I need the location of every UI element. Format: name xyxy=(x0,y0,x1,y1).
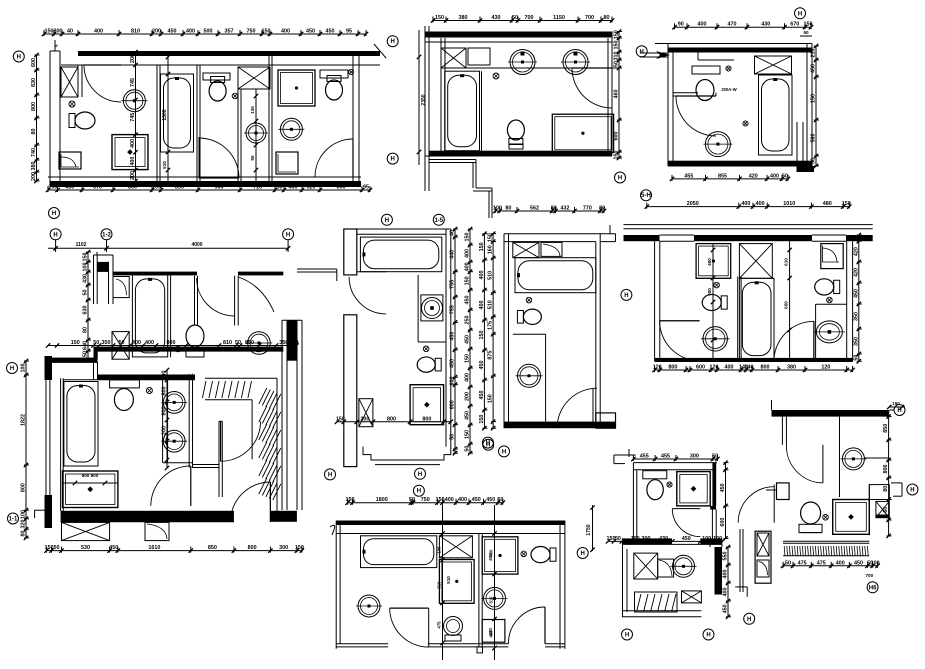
svg-text:1-5: 1-5 xyxy=(434,218,443,224)
wall right plan C xyxy=(806,44,808,167)
toilet H xyxy=(550,548,556,561)
svg-text:310: 310 xyxy=(614,52,620,61)
svg-text:850: 850 xyxy=(208,545,217,551)
wall top D xyxy=(113,272,197,276)
wall right G xyxy=(846,241,848,361)
svg-text:400: 400 xyxy=(145,340,154,346)
svg-text:430: 430 xyxy=(761,22,770,28)
svg-text:2350: 2350 xyxy=(421,94,427,105)
svg-text:450: 450 xyxy=(168,29,177,35)
svg-text:480: 480 xyxy=(823,201,832,207)
svg-text:H: H xyxy=(502,449,506,455)
door arc IJ xyxy=(738,487,774,523)
svg-text:510: 510 xyxy=(446,576,451,584)
dim tub room3 xyxy=(167,52,169,181)
svg-text:50: 50 xyxy=(785,560,791,566)
wall top F xyxy=(504,233,616,235)
bathtub E xyxy=(360,237,441,272)
svg-text:M: M xyxy=(54,44,57,48)
wall right H xyxy=(559,521,561,649)
svg-text:150: 150 xyxy=(83,253,89,262)
shower I xyxy=(677,472,710,506)
partition D upper2 xyxy=(234,276,236,326)
bathtub F xyxy=(515,258,596,293)
svg-text:150: 150 xyxy=(346,497,355,503)
sink D lower2 xyxy=(163,430,185,452)
door J xyxy=(786,445,823,483)
partition C mid xyxy=(673,92,698,94)
svg-text:100: 100 xyxy=(702,536,711,542)
svg-text:300: 300 xyxy=(690,454,699,460)
toilet D upper xyxy=(186,325,204,347)
svg-text:1800: 1800 xyxy=(376,497,388,503)
sink J xyxy=(842,448,864,470)
svg-text:450: 450 xyxy=(486,497,495,503)
svg-text:800: 800 xyxy=(668,365,677,371)
svg-text:150: 150 xyxy=(262,29,271,35)
toilet room6 xyxy=(320,70,348,78)
svg-text:510: 510 xyxy=(489,596,494,604)
wall bottom J xyxy=(783,540,869,542)
svg-text:450: 450 xyxy=(109,545,118,551)
svg-text:745: 745 xyxy=(130,78,136,87)
svg-text:400: 400 xyxy=(94,29,103,35)
dim left plan A xyxy=(36,55,38,181)
svg-text:50: 50 xyxy=(409,497,415,503)
svg-text:670: 670 xyxy=(93,185,102,191)
cabinet G xyxy=(696,244,731,279)
svg-text:650: 650 xyxy=(784,301,789,309)
svg-text:5-H: 5-H xyxy=(641,193,651,199)
arrow left plan C xyxy=(656,51,670,59)
svg-text:95: 95 xyxy=(250,155,255,161)
X box E xyxy=(359,399,373,427)
shower tray room6 xyxy=(276,152,298,174)
svg-text:50: 50 xyxy=(811,158,817,164)
svg-text:100: 100 xyxy=(871,560,880,566)
dim 2350 plan B xyxy=(418,30,420,165)
shower tray G right xyxy=(821,244,843,269)
dim top plan A xyxy=(44,33,366,35)
dim right J xyxy=(888,417,890,536)
svg-text:400: 400 xyxy=(723,570,729,579)
shelf F xyxy=(541,242,562,256)
axis bubble I1 xyxy=(622,629,633,640)
svg-text:150: 150 xyxy=(336,416,345,422)
partition C toilet xyxy=(697,53,699,61)
shower sq H xyxy=(482,620,505,643)
svg-text:400: 400 xyxy=(723,588,729,597)
dim vert vanity D xyxy=(166,370,168,468)
wall hook J right xyxy=(891,482,902,484)
svg-text:50: 50 xyxy=(782,173,788,179)
wall right I xyxy=(712,463,716,506)
svg-text:200: 200 xyxy=(465,392,471,401)
svg-text:475: 475 xyxy=(798,560,807,566)
svg-text:450: 450 xyxy=(465,411,471,420)
dim vert room2 xyxy=(135,52,137,181)
svg-text:50: 50 xyxy=(615,536,621,542)
svg-text:450: 450 xyxy=(811,64,817,73)
drain H xyxy=(521,551,527,557)
axis bubble J1 xyxy=(907,484,918,495)
svg-text:440: 440 xyxy=(450,250,456,259)
floor drain room4 xyxy=(232,93,238,99)
svg-text:135: 135 xyxy=(250,106,255,114)
wall left E xyxy=(344,229,357,275)
svg-text:150: 150 xyxy=(436,497,445,503)
hatch J bottom xyxy=(783,555,869,557)
axis bubble A right1 xyxy=(387,36,398,47)
svg-text:H: H xyxy=(640,49,644,55)
dim 1750 H xyxy=(592,505,594,551)
svg-text:1-2: 1-2 xyxy=(102,232,111,238)
svg-text:400: 400 xyxy=(445,497,454,503)
sink plan C xyxy=(705,132,730,157)
svg-text:H: H xyxy=(328,472,332,478)
dim horiz E xyxy=(337,421,451,423)
svg-text:700: 700 xyxy=(525,15,534,21)
svg-text:H6: H6 xyxy=(869,585,877,591)
svg-text:710: 710 xyxy=(253,185,262,191)
wall right plan A xyxy=(352,56,354,181)
door D lower2 xyxy=(151,466,191,506)
svg-text:200: 200 xyxy=(31,172,37,181)
door D lower3 xyxy=(230,482,270,522)
svg-text:150: 150 xyxy=(45,545,54,551)
door H1 xyxy=(390,608,429,647)
axis bubble D2 xyxy=(50,229,61,240)
svg-text:H: H xyxy=(706,633,710,639)
door F xyxy=(557,388,597,428)
vanity wall D xyxy=(162,378,164,463)
toilet J xyxy=(801,502,821,524)
axis bubble E3 xyxy=(415,468,426,479)
dim mid I xyxy=(608,540,722,542)
svg-text:740: 740 xyxy=(31,148,37,157)
svg-text:755: 755 xyxy=(450,305,456,314)
svg-text:475: 475 xyxy=(817,560,826,566)
X box J xyxy=(876,501,889,517)
svg-text:H: H xyxy=(486,441,490,447)
svg-text:50: 50 xyxy=(512,15,518,21)
svg-text:50: 50 xyxy=(83,290,89,296)
axis bubble J top xyxy=(894,405,905,416)
svg-text:430: 430 xyxy=(489,630,494,638)
svg-text:2050: 2050 xyxy=(687,201,699,207)
dim bottom plan A xyxy=(48,189,370,191)
wall right ext plan C xyxy=(796,122,798,172)
svg-text:100: 100 xyxy=(21,364,27,373)
svg-text:450: 450 xyxy=(450,332,456,341)
svg-text:80: 80 xyxy=(599,206,605,212)
counter E xyxy=(417,275,419,342)
svg-text:600: 600 xyxy=(696,365,705,371)
closet X plan B xyxy=(441,48,466,68)
door stub D upper xyxy=(197,276,199,326)
dim bottom D xyxy=(47,550,302,552)
axis bubble I2 xyxy=(703,629,714,640)
dim right E2 xyxy=(469,229,471,453)
svg-text:H: H xyxy=(53,232,57,238)
svg-text:380: 380 xyxy=(459,15,468,21)
dim shower D xyxy=(63,482,118,484)
basin E xyxy=(421,295,443,321)
closet lines D xyxy=(205,377,277,379)
axis bubble F2 xyxy=(482,437,493,448)
svg-text:600: 600 xyxy=(450,400,456,409)
svg-text:600: 600 xyxy=(450,376,456,385)
wall top G upper xyxy=(624,224,873,226)
toilet G xyxy=(721,296,727,309)
svg-text:455: 455 xyxy=(640,454,649,460)
svg-text:H: H xyxy=(897,408,901,414)
dim right I xyxy=(725,463,727,539)
bracket IJ xyxy=(735,586,747,588)
dim top plan C xyxy=(675,26,812,28)
dim left D lower xyxy=(25,361,27,538)
partition D lower xyxy=(219,420,222,422)
hatch box D bottom xyxy=(62,522,110,540)
dim room5 xyxy=(255,89,257,181)
line right J xyxy=(864,457,889,459)
axis bubble A1 xyxy=(13,51,24,62)
svg-text:350: 350 xyxy=(102,340,111,346)
svg-text:50: 50 xyxy=(497,497,503,503)
svg-text:400: 400 xyxy=(465,373,471,382)
svg-text:150: 150 xyxy=(465,430,471,439)
step wall I xyxy=(614,454,636,456)
shower E xyxy=(410,385,444,425)
svg-text:450: 450 xyxy=(306,29,315,35)
door H2 xyxy=(508,607,545,644)
bathtub G xyxy=(739,278,774,359)
svg-text:300: 300 xyxy=(642,536,651,542)
svg-text:H: H xyxy=(625,633,629,639)
svg-text:150: 150 xyxy=(614,151,620,160)
svg-text:100: 100 xyxy=(152,185,161,191)
shower tray room1 xyxy=(59,152,81,169)
wall left I xyxy=(632,463,634,539)
cabinet H right xyxy=(482,537,518,574)
toilet F xyxy=(517,311,523,324)
shower D lower xyxy=(63,471,118,508)
svg-text:80: 80 xyxy=(21,531,27,537)
svg-text:H: H xyxy=(52,211,56,217)
wall top plan C xyxy=(655,43,812,45)
svg-text:400: 400 xyxy=(707,258,712,266)
closet X room4 xyxy=(238,67,270,89)
svg-text:150: 150 xyxy=(465,276,471,285)
closet X plan C xyxy=(755,56,792,74)
svg-text:150: 150 xyxy=(479,242,485,251)
toilet room1 xyxy=(69,114,75,128)
svg-text:432: 432 xyxy=(561,206,570,212)
svg-text:1822: 1822 xyxy=(21,414,27,426)
svg-text:450: 450 xyxy=(465,296,471,305)
svg-text:600: 600 xyxy=(337,185,346,191)
svg-text:80: 80 xyxy=(551,206,557,212)
vanity right D xyxy=(188,374,190,468)
column X box IJ xyxy=(755,531,771,583)
svg-text:800: 800 xyxy=(162,407,168,416)
svg-text:H: H xyxy=(798,11,802,17)
svg-text:560: 560 xyxy=(811,134,817,143)
dim mid D xyxy=(48,345,297,347)
svg-text:1010: 1010 xyxy=(783,201,795,207)
svg-text:510: 510 xyxy=(437,581,442,589)
svg-text:450: 450 xyxy=(854,560,863,566)
svg-text:40: 40 xyxy=(450,230,456,236)
svg-text:810: 810 xyxy=(223,340,232,346)
wall top J xyxy=(772,410,890,417)
svg-text:100: 100 xyxy=(631,536,640,542)
svg-text:750: 750 xyxy=(247,29,256,35)
svg-text:850: 850 xyxy=(883,424,889,433)
svg-text:H: H xyxy=(286,232,290,238)
toilet I xyxy=(643,471,667,479)
svg-text:400: 400 xyxy=(132,340,141,346)
svg-text:745: 745 xyxy=(130,113,136,122)
door E xyxy=(349,277,386,314)
wall bottom D xyxy=(61,511,234,522)
svg-text:670: 670 xyxy=(790,22,799,28)
X box H xyxy=(439,536,472,558)
svg-text:80: 80 xyxy=(83,327,89,333)
dim top plan B xyxy=(433,20,612,22)
sink H left xyxy=(358,595,380,617)
svg-text:1-1: 1-1 xyxy=(9,517,18,523)
sink G left xyxy=(703,327,727,351)
wall top D lower xyxy=(97,375,195,380)
svg-text:210: 210 xyxy=(811,49,817,58)
svg-text:450: 450 xyxy=(479,391,485,400)
wall top E xyxy=(344,228,451,230)
svg-text:400: 400 xyxy=(725,365,734,371)
svg-text:700: 700 xyxy=(865,573,873,578)
wall bottom F xyxy=(504,422,616,429)
dim tick J top xyxy=(887,405,891,409)
svg-text:640: 640 xyxy=(83,341,89,350)
door D lower1 xyxy=(221,421,261,461)
svg-text:510: 510 xyxy=(488,271,494,280)
svg-text:50: 50 xyxy=(450,434,456,440)
sink D upper xyxy=(248,332,271,355)
dim mid H2 xyxy=(494,505,496,660)
wall top I xyxy=(633,462,717,464)
dim vert C right xyxy=(815,46,817,166)
step wall J left xyxy=(777,483,790,500)
drain C1 xyxy=(726,66,731,71)
door room6 xyxy=(315,139,353,177)
wall top G main xyxy=(624,235,660,241)
svg-text:800: 800 xyxy=(387,416,396,422)
drain G2 xyxy=(827,297,833,303)
drain room6 xyxy=(348,69,353,74)
wall I low xyxy=(634,578,658,580)
svg-text:400: 400 xyxy=(489,549,494,557)
svg-text:800: 800 xyxy=(167,340,176,346)
door arc D upper xyxy=(197,278,235,316)
axis bubble E4 xyxy=(483,439,494,450)
floor drain room1 xyxy=(69,101,75,107)
partition room5/6 xyxy=(268,56,270,181)
drain E xyxy=(423,346,429,352)
platform E xyxy=(363,447,451,460)
sink room5 xyxy=(246,123,266,143)
svg-text:120: 120 xyxy=(710,365,719,371)
svg-text:810: 810 xyxy=(131,29,140,35)
sink B1 xyxy=(510,50,535,75)
dim cab G xyxy=(712,244,714,361)
axis bubble J2 xyxy=(867,582,878,593)
partition G mid xyxy=(737,277,739,362)
svg-text:455: 455 xyxy=(684,173,693,179)
sink I low xyxy=(673,555,695,577)
svg-text:50: 50 xyxy=(93,340,99,346)
column arc box IJ xyxy=(757,560,769,577)
sink H xyxy=(484,587,506,609)
wall left plan B xyxy=(424,26,426,191)
svg-text:175: 175 xyxy=(488,321,494,330)
svg-text:H: H xyxy=(618,176,622,182)
svg-text:200: 200 xyxy=(360,416,369,422)
svg-text:150: 150 xyxy=(45,29,54,35)
dim right plan B xyxy=(618,32,620,159)
svg-text:450: 450 xyxy=(326,29,335,35)
wall left plan A xyxy=(49,51,51,187)
bathtub D upper xyxy=(132,275,167,357)
svg-text:150: 150 xyxy=(488,394,494,403)
svg-text:400: 400 xyxy=(741,201,750,207)
axis bubble E1 xyxy=(381,214,392,225)
wall mid I xyxy=(622,538,672,544)
drain I xyxy=(667,482,672,487)
dim right G xyxy=(858,235,860,361)
svg-text:450: 450 xyxy=(682,536,691,542)
wall bottom D right xyxy=(270,511,297,522)
svg-text:1610: 1610 xyxy=(148,545,160,551)
svg-text:400: 400 xyxy=(458,497,467,503)
X box I low xyxy=(634,553,658,579)
wall right E xyxy=(445,229,447,447)
svg-text:95: 95 xyxy=(363,185,369,191)
bathtub plan C xyxy=(759,75,793,155)
svg-text:H: H xyxy=(17,55,21,61)
door plan C xyxy=(715,93,717,96)
dim left F1 xyxy=(492,234,494,429)
svg-text:50: 50 xyxy=(614,61,620,67)
toilet plan B xyxy=(509,139,523,145)
sink B2 xyxy=(563,50,588,75)
svg-text:H: H xyxy=(391,157,395,163)
svg-text:200: 200 xyxy=(130,54,136,63)
svg-text:430: 430 xyxy=(492,15,501,21)
svg-text:450: 450 xyxy=(465,335,471,344)
svg-text:50: 50 xyxy=(712,454,718,460)
hatch closet D right xyxy=(259,388,267,404)
svg-text:200: 200 xyxy=(130,171,136,180)
drain C2 xyxy=(743,121,748,126)
drain D lower xyxy=(146,388,152,394)
closet D xyxy=(113,277,129,298)
svg-text:450: 450 xyxy=(472,497,481,503)
dim right E1 xyxy=(454,229,456,453)
sink G right xyxy=(816,321,842,343)
wall J right low xyxy=(868,485,870,536)
svg-text:H: H xyxy=(418,472,422,478)
door arc D upper2 xyxy=(238,277,274,312)
